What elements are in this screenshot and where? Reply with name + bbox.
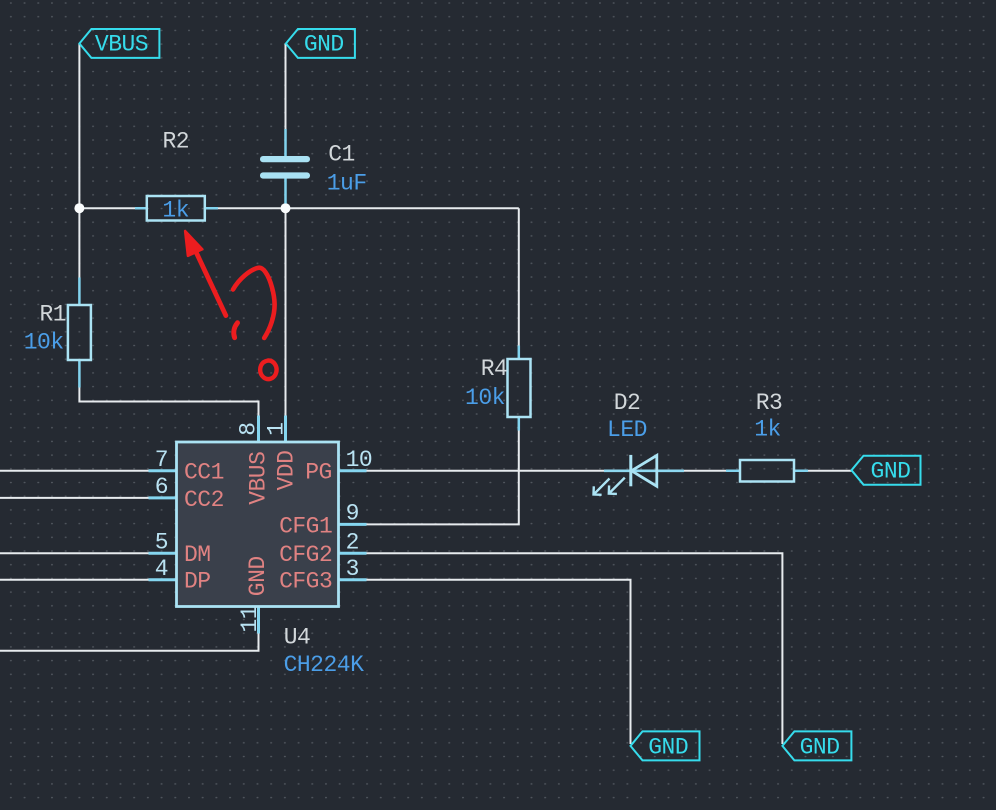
red annotation hook curve [233,268,275,338]
capacitor C1 [260,129,310,204]
svg-text:GND: GND [648,734,688,760]
svg-text:9: 9 [346,501,359,527]
pin 1 stub [284,416,287,443]
pin 7 stub [149,469,177,472]
wire LED to R3 [684,470,727,472]
svg-text:VBUS: VBUS [95,32,148,58]
svg-text:8: 8 [235,422,261,435]
wire pin5 [0,552,149,554]
svg-text:CFG2: CFG2 [279,542,332,568]
IC U4 body [177,442,339,607]
svg-text:R3: R3 [756,390,783,416]
svg-text:D2: D2 [614,390,641,416]
wire VBUS column upper [78,44,80,279]
pin 10 stub [339,469,367,472]
svg-text:CFG3: CFG3 [279,569,332,595]
svg-text:GND: GND [245,556,271,596]
svg-text:11: 11 [237,606,263,633]
power flag GND top [286,29,355,58]
wire pin2 to GND flag [367,553,783,744]
resistor R4 [508,346,531,431]
wire R1 bottom to pin 8 [79,387,258,442]
svg-text:CH224K: CH224K [284,652,365,678]
power flag VBUS [79,29,159,58]
svg-text:6: 6 [155,474,168,500]
svg-text:DP: DP [184,569,211,595]
svg-text:7: 7 [155,447,168,473]
svg-text:1uF: 1uF [327,170,367,196]
svg-text:5: 5 [155,529,168,555]
junction dot at VBUS/R2 [74,203,84,213]
svg-text:R4: R4 [481,356,508,382]
svg-text:2: 2 [346,529,359,555]
svg-text:1k: 1k [754,417,781,443]
svg-text:GND: GND [304,32,344,58]
wire pin3 to GND flag [367,580,631,744]
LED D2 [594,455,685,495]
pin 8 stub [257,416,260,443]
svg-text:1: 1 [264,422,290,435]
svg-text:10k: 10k [24,329,64,355]
power flag GND bottom-left [631,731,700,760]
svg-text:10k: 10k [465,385,505,411]
svg-text:DM: DM [184,542,211,568]
svg-text:VDD: VDD [274,451,300,491]
wire pin7 [0,470,149,472]
wire pin4 [0,579,149,581]
svg-text:CC1: CC1 [184,460,224,486]
resistor R1 [68,278,91,388]
svg-text:CFG1: CFG1 [279,513,332,539]
wire R3 to GND flag [807,470,852,472]
pin 6 stub [149,496,177,499]
svg-text:3: 3 [346,556,359,582]
red annotation small circle [260,360,276,379]
pin 2 stub [339,552,367,555]
svg-text:VBUS: VBUS [246,452,272,505]
svg-text:GND: GND [871,458,911,484]
svg-text:CC2: CC2 [184,487,224,513]
wire GND flag to C1 [285,44,287,131]
red annotation small comma stroke [234,323,238,338]
wire pin6 [0,497,149,499]
pin stubs of U4 [149,416,367,634]
svg-text:U4: U4 [284,625,311,651]
wire VBUS junction to R2 [79,207,136,209]
svg-text:C1: C1 [328,142,355,168]
svg-text:10: 10 [346,447,373,473]
wire R4 column upper [518,208,520,346]
red annotation arrow [185,231,226,316]
junction dot at C1/R2 [281,203,291,213]
wire pin10 to LED [367,470,605,472]
pin 9 stub [339,523,367,526]
wire R4 bottom to pin 9 [367,430,519,525]
svg-text:GND: GND [800,734,840,760]
pin 3 stub [339,578,367,581]
svg-text:LED: LED [607,417,647,443]
pin 11 stub [257,607,260,634]
svg-text:R1: R1 [39,301,66,327]
pin 4 stub [149,578,177,581]
svg-text:R2: R2 [162,129,189,155]
power flag GND bottom-right [782,731,851,760]
power flag GND right [852,456,921,485]
svg-text:4: 4 [155,556,168,582]
wire C1 to pin 1 [285,203,287,442]
resistor R2 [135,196,218,221]
svg-text:1k: 1k [162,197,189,223]
svg-text:PG: PG [305,460,332,486]
resistor R3 [726,460,808,482]
pin 5 stub [149,552,177,555]
wire R2 to R4 column [217,207,519,209]
wire pin11 [0,633,259,651]
